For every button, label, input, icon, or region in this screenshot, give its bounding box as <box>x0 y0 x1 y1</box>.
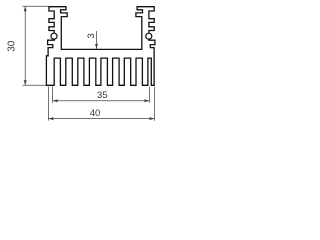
svg-text:40: 40 <box>90 108 101 119</box>
dim 35 extension left <box>52 87 54 103</box>
dim 30 extension top <box>23 5 49 7</box>
svg-text:30: 30 <box>6 40 17 52</box>
dim 30 extension bottom <box>23 84 46 86</box>
dim 40 extension left <box>47 87 49 121</box>
dim 30 line <box>24 6 26 85</box>
dim 3 line <box>96 31 98 49</box>
dim 40 extension right <box>154 87 156 121</box>
dim 35 line <box>53 100 150 102</box>
heatsink profile outline <box>46 7 154 86</box>
svg-text:35: 35 <box>97 90 108 101</box>
dim 35 extension right <box>148 87 150 103</box>
svg-text:3: 3 <box>86 33 97 38</box>
dim 40 line <box>48 118 154 120</box>
screw hole right <box>146 33 152 39</box>
screw hole left <box>51 33 57 39</box>
